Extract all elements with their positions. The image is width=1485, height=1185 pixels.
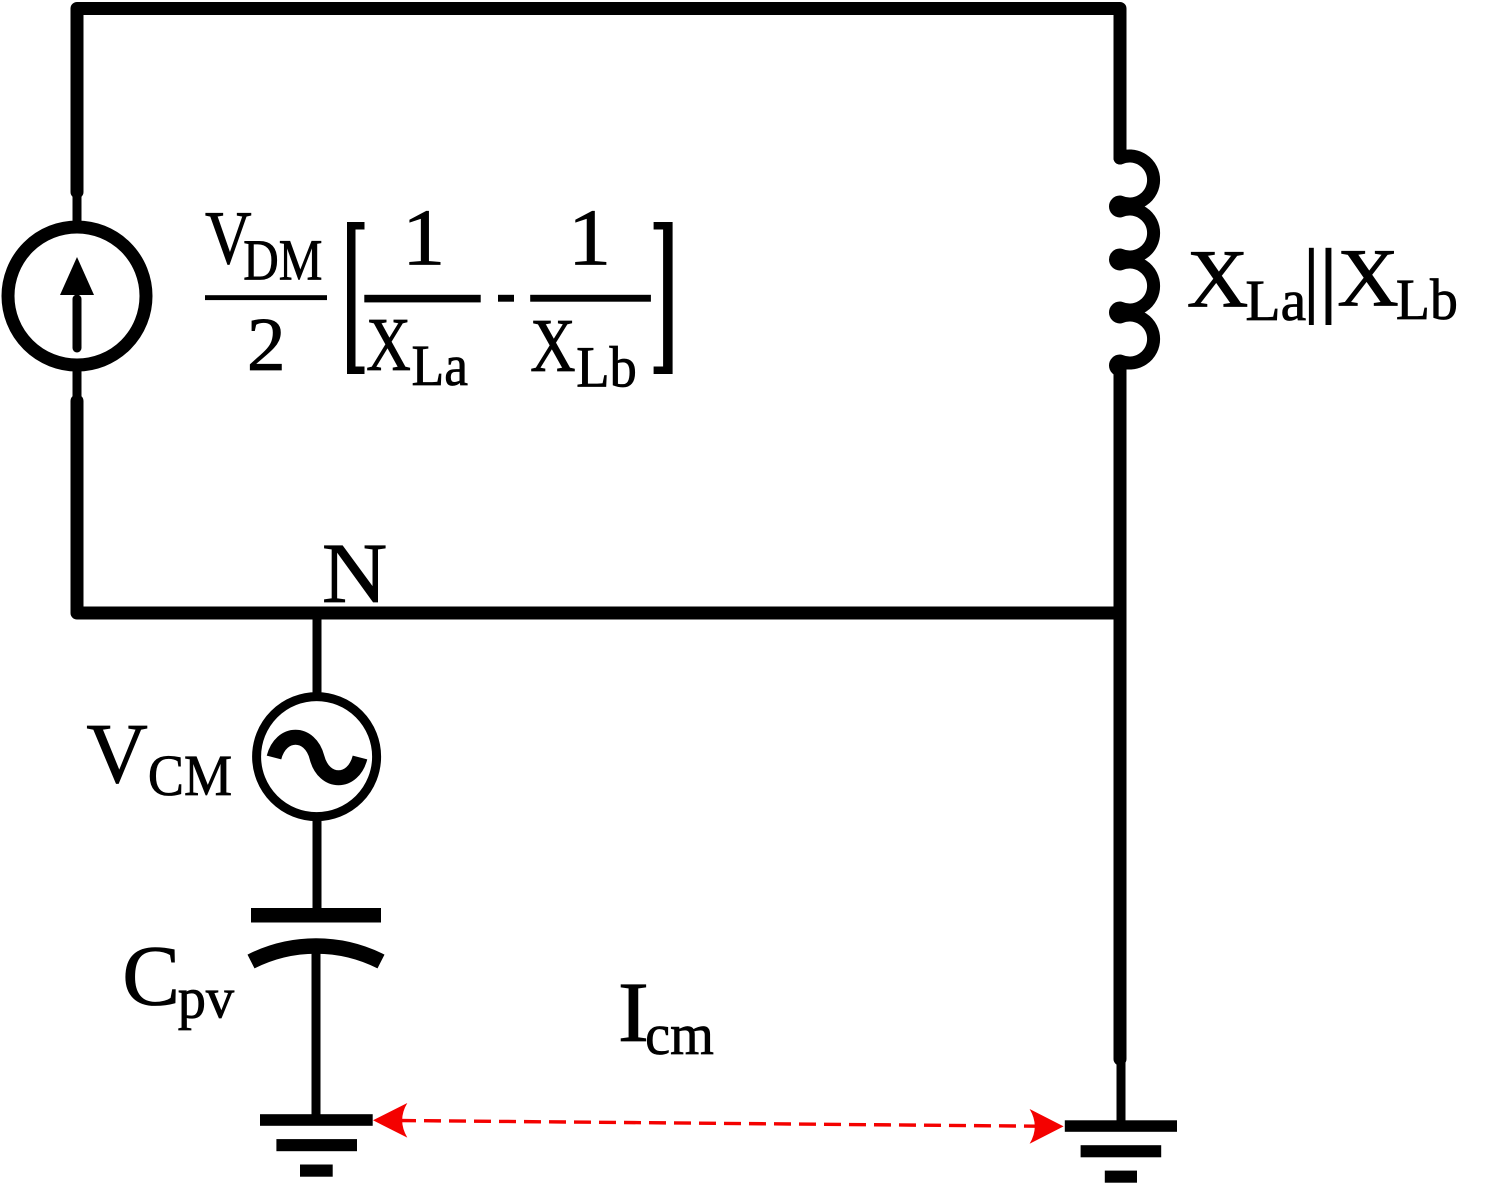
svg-text:cm: cm [645, 1003, 714, 1067]
formula fraction2 bar [530, 295, 651, 302]
formula left bracket [347, 222, 365, 374]
left ground bar 3 [300, 1165, 333, 1177]
wire bottom: left vertical and bottom horizontal to right wire [77, 401, 1120, 613]
svg-text:N: N [322, 526, 387, 621]
right ground bar 2 [1081, 1145, 1162, 1157]
wire stub node N to VCM [313, 611, 322, 695]
left ground bar 1 [260, 1114, 373, 1126]
svg-text:DM: DM [243, 228, 322, 293]
svg-text:V: V [86, 705, 147, 800]
inductor label parallel bar 1 [1309, 248, 1314, 325]
svg-text:pv: pv [178, 967, 235, 1031]
right ground bar 3 [1105, 1171, 1137, 1183]
wire lead from current source bottom [73, 368, 82, 403]
AC source VCM circle [257, 697, 377, 817]
wire right vertical from inductor to bottom [1114, 370, 1127, 1059]
svg-text:2: 2 [247, 303, 286, 387]
svg-text:Lb: Lb [576, 336, 637, 400]
Icm right arrowhead [1030, 1109, 1064, 1144]
wire stub VCM to capacitor [313, 819, 322, 910]
svg-text:X: X [366, 303, 411, 387]
current source arrow head [60, 257, 94, 295]
formula right bracket [654, 222, 673, 374]
Icm left arrowhead [373, 1103, 407, 1138]
svg-text:CM: CM [148, 744, 232, 808]
capacitor Cpv curved plate [251, 946, 381, 962]
capacitor Cpv top plate [251, 908, 381, 923]
formula fraction1 bar [364, 295, 480, 303]
formula main fraction bar [205, 295, 327, 300]
svg-text:X: X [1187, 233, 1249, 325]
current source arrow shaft [73, 299, 82, 348]
wire capacitor to left ground [312, 950, 321, 1116]
wire lead into current source top [73, 190, 82, 224]
svg-text:1: 1 [568, 193, 611, 281]
inductor label parallel bar 2 [1326, 248, 1332, 325]
svg-text:X: X [530, 304, 575, 388]
svg-text:La: La [1245, 269, 1306, 333]
Icm red dashed line [399, 1121, 1037, 1127]
right ground bar 1 [1065, 1120, 1177, 1132]
left ground bar 2 [276, 1139, 357, 1151]
svg-text:Lb: Lb [1396, 268, 1458, 332]
VCM sine symbol [274, 737, 360, 778]
wire top loop: left vertical, top horizontal, right drop to inductor [77, 9, 1120, 193]
svg-text:X: X [1337, 233, 1399, 325]
current source circle [8, 227, 146, 365]
formula minus sign [498, 295, 514, 302]
svg-text:La: La [412, 334, 468, 398]
svg-text:C: C [122, 928, 180, 1024]
svg-text:1: 1 [402, 193, 445, 281]
inductor coil XLa||XLb [1116, 156, 1154, 370]
wire lead down to right ground [1117, 1058, 1126, 1122]
